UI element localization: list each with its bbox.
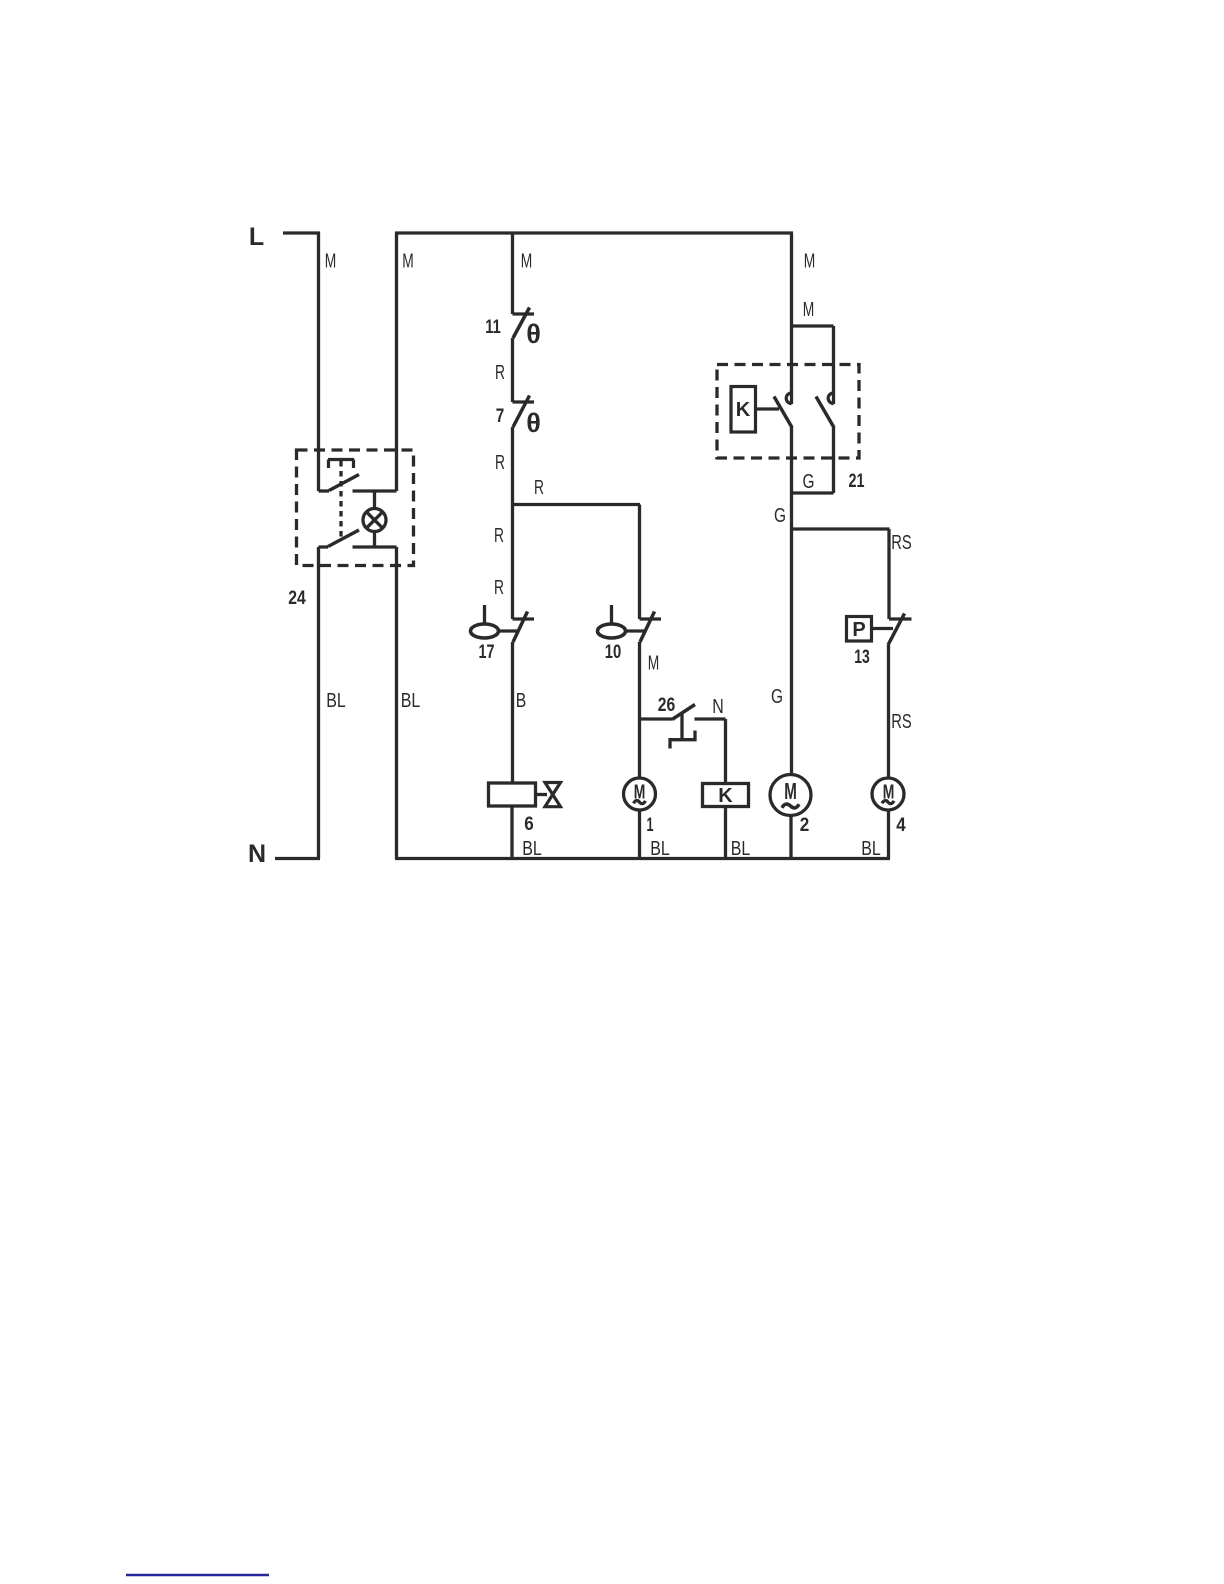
svg-text:L: L — [249, 223, 264, 251]
svg-text:θ: θ — [526, 319, 541, 349]
svg-text:2: 2 — [800, 815, 810, 836]
svg-text:21: 21 — [849, 471, 865, 492]
svg-text:M: M — [402, 251, 414, 273]
svg-text:26: 26 — [658, 695, 676, 716]
svg-text:13: 13 — [854, 647, 870, 668]
svg-text:BL: BL — [861, 838, 881, 860]
svg-text:N: N — [712, 696, 724, 718]
svg-text:M: M — [804, 251, 816, 273]
svg-text:BL: BL — [522, 838, 542, 860]
svg-text:G: G — [803, 471, 815, 493]
svg-text:10: 10 — [605, 642, 622, 663]
svg-text:1: 1 — [647, 815, 654, 836]
svg-text:R: R — [495, 362, 505, 384]
svg-text:24: 24 — [288, 588, 306, 609]
svg-text:K: K — [736, 399, 751, 421]
svg-text:RS: RS — [891, 532, 912, 554]
svg-text:M: M — [803, 299, 815, 321]
svg-text:R: R — [534, 477, 544, 499]
svg-text:R: R — [494, 525, 504, 547]
svg-text:P: P — [852, 619, 865, 641]
svg-text:G: G — [774, 505, 786, 527]
svg-text:M: M — [784, 778, 797, 804]
svg-text:R: R — [494, 577, 504, 599]
svg-text:11: 11 — [485, 317, 501, 338]
svg-text:7: 7 — [496, 406, 505, 427]
svg-text:θ: θ — [526, 408, 541, 438]
svg-text:4: 4 — [896, 815, 906, 836]
svg-text:N: N — [248, 840, 266, 868]
svg-text:M: M — [634, 782, 646, 804]
svg-text:R: R — [495, 452, 505, 474]
svg-text:M: M — [325, 251, 337, 273]
svg-text:BL: BL — [401, 690, 421, 712]
svg-text:G: G — [771, 686, 783, 708]
svg-text:M: M — [648, 653, 660, 675]
svg-text:RS: RS — [891, 711, 912, 733]
svg-text:M: M — [521, 251, 533, 273]
svg-text:BL: BL — [326, 690, 346, 712]
svg-text:M: M — [883, 782, 895, 804]
svg-text:BL: BL — [731, 838, 751, 860]
svg-text:B: B — [516, 690, 527, 712]
svg-text:6: 6 — [524, 814, 534, 835]
svg-text:K: K — [718, 785, 733, 807]
svg-text:BL: BL — [650, 838, 670, 860]
svg-text:17: 17 — [479, 642, 495, 663]
